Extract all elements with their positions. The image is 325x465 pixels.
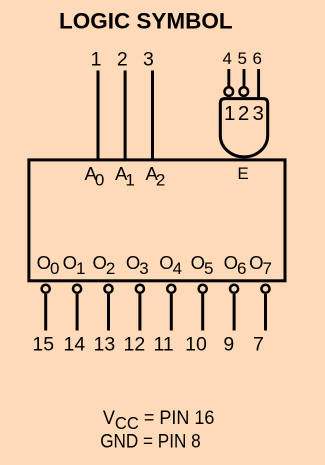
- svg-text:A1: A1: [115, 163, 135, 190]
- svg-text:14: 14: [64, 333, 86, 355]
- inversion bubble on output O7: [261, 285, 269, 293]
- wire: output O7 to pin 7: [264, 294, 267, 331]
- svg-text:12: 12: [124, 333, 146, 355]
- svg-text:O4: O4: [159, 252, 182, 278]
- svg-text:O7: O7: [249, 252, 272, 278]
- wire: pin 6 to enable gate: [257, 69, 260, 100]
- svg-text:A2: A2: [146, 163, 166, 190]
- inversion bubble on output O1: [73, 285, 81, 293]
- wire: pin 4 to enable gate: [227, 69, 230, 86]
- wire: pin 3 to A2 input: [151, 71, 154, 161]
- svg-text:15: 15: [32, 333, 54, 355]
- inversion bubble on output O5: [199, 285, 207, 293]
- inversion bubble on output O4: [167, 285, 175, 293]
- inversion bubble on output O0: [42, 285, 50, 293]
- svg-text:LOGIC SYMBOL: LOGIC SYMBOL: [59, 8, 233, 33]
- svg-text:O6: O6: [224, 252, 247, 278]
- svg-text:4: 4: [222, 49, 231, 68]
- svg-text:3: 3: [252, 102, 263, 125]
- enable AND gate: [220, 99, 267, 157]
- svg-text:13: 13: [94, 333, 116, 355]
- svg-text:10: 10: [185, 333, 207, 355]
- svg-text:3: 3: [143, 49, 154, 71]
- svg-text:A0: A0: [85, 163, 105, 190]
- wire: output O6 to pin 9: [233, 294, 236, 331]
- svg-text:1: 1: [224, 102, 235, 125]
- svg-text:O5: O5: [191, 252, 214, 278]
- wire: output O5 to pin 10: [201, 294, 204, 331]
- inversion bubble on output O3: [136, 285, 144, 293]
- svg-text:1: 1: [91, 49, 102, 71]
- svg-text:9: 9: [223, 333, 234, 355]
- wire: pin 1 to A0 input: [97, 71, 100, 161]
- inversion bubble on output O6: [230, 285, 238, 293]
- svg-text:2: 2: [117, 49, 128, 71]
- svg-text:O3: O3: [126, 252, 149, 278]
- inversion bubble on pin 5: [240, 87, 249, 96]
- svg-text:GND = PIN 8: GND = PIN 8: [100, 432, 201, 453]
- wire: output O0 to pin 15: [44, 294, 47, 331]
- svg-text:VCC = PIN 16: VCC = PIN 16: [103, 408, 215, 433]
- decoder box: [29, 160, 285, 281]
- svg-text:O1: O1: [63, 252, 86, 278]
- svg-text:E: E: [237, 164, 248, 183]
- wire: output O1 to pin 14: [76, 294, 79, 331]
- svg-text:7: 7: [253, 333, 264, 355]
- svg-text:2: 2: [238, 102, 249, 125]
- inversion bubble on output O2: [104, 285, 112, 293]
- wire: output O4 to pin 11: [170, 294, 173, 331]
- svg-text:5: 5: [237, 49, 246, 68]
- svg-text:11: 11: [153, 333, 173, 355]
- wire: pin 5 to enable gate: [243, 69, 246, 86]
- wire: output O3 to pin 12: [138, 294, 141, 331]
- wire: pin 2 to A1 input: [124, 71, 127, 161]
- svg-text:6: 6: [252, 49, 261, 68]
- wire: output O2 to pin 13: [107, 294, 110, 331]
- inversion bubble on pin 4: [225, 87, 234, 96]
- svg-text:O2: O2: [92, 252, 115, 278]
- svg-text:O0: O0: [37, 252, 60, 278]
